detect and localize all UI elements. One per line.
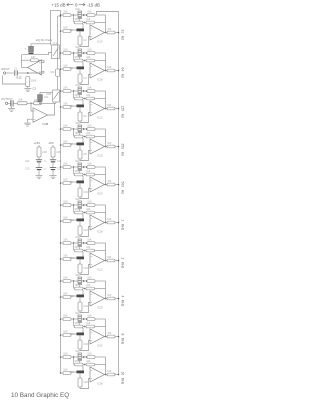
wire output row to S1B bottom [42, 102, 57, 104]
svg-text:10K: 10K [75, 160, 80, 163]
resistor R32 10K feedback [86, 287, 95, 290]
op-amp IC2B output amplifier (points right) [33, 108, 48, 123]
resistor R31 4K7 [75, 287, 84, 290]
op-amp IC1A band 1 [90, 25, 105, 40]
svg-text:24R: 24R [56, 151, 61, 154]
wire feedback column band 8 [105, 281, 107, 299]
wire rowC to capacitor band 1 [71, 29, 77, 31]
resistor R16c 100R output band 4 [107, 145, 115, 148]
capacitor C19 band 10 (dark bar) [77, 371, 85, 374]
capacitor C17 band 9 (dark bar) [77, 333, 85, 336]
svg-text:100: 100 [107, 332, 112, 335]
wire R to pot band 3 [71, 90, 78, 92]
capacitor C4 electrolytic [10, 100, 12, 106]
svg-text:10K: 10K [75, 236, 80, 239]
resistor RR13 ladder row C 10K [63, 258, 71, 261]
svg-text:KHz: KHz [121, 378, 125, 385]
node right bus junction band 2 [118, 70, 120, 72]
svg-text:10K: 10K [63, 238, 68, 241]
wire output node column [21, 55, 23, 68]
svg-text:C20: C20 [84, 381, 89, 384]
node bus-B junction band 1 row C [60, 30, 62, 32]
wire output resistor to right bus band 8 [115, 298, 119, 300]
resistor R36c 100R output band 9 [107, 335, 115, 338]
output terminal [5, 102, 7, 104]
op-amp IC2D band 8 [90, 291, 105, 306]
potentiometer VR9 10K slider [78, 315, 82, 323]
resistor R33 ladder 10K [63, 318, 71, 321]
svg-text:10K: 10K [63, 124, 68, 127]
node row B junction band 2 [84, 60, 85, 61]
wiper arrow pot VR4 [82, 128, 84, 130]
svg-text:C14: C14 [84, 267, 89, 270]
svg-text:EQ By Pass: EQ By Pass [36, 38, 53, 42]
svg-text:10K: 10K [87, 314, 92, 317]
capacitor C7 band 4 (dark bar) [77, 143, 85, 146]
legend left arrow [67, 4, 73, 6]
wire R to pot band 9 [71, 318, 78, 320]
node output junction band 10 [105, 374, 107, 376]
wire cap to row B junction band 6 [82, 214, 84, 219]
wire output resistor to right bus band 3 [115, 108, 119, 110]
svg-text:10K: 10K [63, 200, 68, 203]
resistor R-out 10K [18, 102, 28, 105]
node bus-B junction band 10 row C [60, 372, 62, 374]
svg-text:Hz: Hz [121, 152, 125, 156]
node wiper junction band 8 [86, 280, 88, 282]
node bus-B junction band 10 row A [60, 356, 62, 358]
capacitor C3 electrolytic output coupling [38, 95, 43, 100]
node wiper junction band 9 [86, 318, 88, 320]
svg-text:C11: C11 [70, 219, 75, 222]
capacitor C13 decoupling -rail [52, 157, 54, 160]
resistor R24 10K feedback [86, 211, 95, 214]
svg-text:100: 100 [107, 28, 112, 31]
resistor R32b gyrator vertical [78, 302, 82, 311]
svg-text:500: 500 [121, 182, 125, 188]
wire drop pot-left to row B band 2 [73, 53, 75, 61]
svg-text:10K: 10K [87, 162, 92, 165]
wire drop pot-left to row B band 8 [73, 281, 75, 289]
node output junction band 9 [105, 336, 107, 338]
capacitor C5 band 3 (dark bar) [77, 105, 85, 108]
svg-text:Hz: Hz [121, 114, 125, 118]
capacitor C11 decoupling -rail 2 [52, 162, 54, 168]
resistor R16b gyrator vertical [78, 150, 82, 159]
node row B junction band 10 [84, 364, 85, 365]
capacitor C1 band 1 (dark bar) [77, 29, 85, 32]
node row B junction band 7 [84, 250, 85, 251]
wire R to pot band 4 [71, 128, 78, 130]
resistor R28 10K feedback [86, 249, 95, 252]
wire output resistor to right bus band 2 [115, 70, 119, 72]
resistor RR3 ladder row C 10K [63, 68, 71, 71]
wire output resistor to right bus band 5 [115, 184, 119, 186]
svg-text:24K: 24K [34, 100, 39, 102]
svg-text:10K: 10K [63, 254, 68, 257]
bus B (left summing bus) [60, 10, 62, 373]
svg-text:10K: 10K [86, 170, 91, 173]
svg-text:-15V: -15V [48, 141, 54, 145]
svg-text:-15 dB: -15 dB [87, 2, 100, 7]
wire R to pot band 1 [71, 14, 78, 16]
wire row B to feedback column band 8 [95, 288, 106, 290]
node pot-left junction band 4 [73, 128, 75, 130]
svg-text:4K7: 4K7 [75, 56, 80, 59]
op-amp IC1D band 4 [90, 139, 105, 154]
svg-text:C12: C12 [25, 160, 30, 163]
svg-text:IC3A: IC3A [97, 345, 103, 348]
wire row B to feedback column band 2 [95, 60, 106, 62]
node wiper junction band 5 [86, 166, 88, 168]
wire R to pot band 5 [71, 166, 78, 168]
svg-text:10K: 10K [63, 178, 68, 181]
svg-text:C17: C17 [70, 333, 75, 336]
svg-text:1: 1 [121, 220, 125, 222]
svg-text:10K: 10K [63, 292, 68, 295]
resistor RR11 ladder row C 10K [63, 220, 71, 223]
capacitor C1 input coupling [14, 70, 16, 75]
svg-text:KHz: KHz [121, 224, 125, 231]
node output junction band 6 [105, 222, 107, 224]
wire drop pot-left to row B band 4 [73, 129, 75, 137]
wire cap bottom to gyrator resistor band 6 [79, 221, 81, 226]
wire output resistor to right bus band 9 [115, 336, 119, 338]
resistor R21 ladder 10K [63, 204, 71, 207]
node pot-left junction band 7 [73, 242, 75, 244]
potentiometer VR2 10K slider [78, 49, 82, 57]
node output junction band 4 [105, 146, 107, 148]
wire row A to feedback column band 3 [95, 90, 106, 92]
wiper arrow pot VR6 [82, 204, 84, 206]
wire feedback column band 10 [105, 357, 107, 375]
svg-text:10K: 10K [63, 86, 68, 89]
svg-text:10K: 10K [75, 84, 80, 87]
svg-text:IC3B: IC3B [97, 383, 103, 386]
svg-text:C10: C10 [25, 168, 30, 171]
svg-text:IC1C: IC1C [97, 117, 103, 120]
op-amp IC2C band 7 [90, 253, 105, 268]
wire output resistor to right bus band 7 [115, 260, 119, 262]
node right bus junction band 6 [118, 222, 120, 224]
svg-text:10K: 10K [63, 102, 68, 105]
svg-text:C13: C13 [57, 160, 62, 163]
svg-text:4K7: 4K7 [75, 322, 80, 325]
svg-text:IC2D: IC2D [97, 307, 103, 310]
node bus-B junction band 5 row A [60, 166, 62, 168]
wire row A to feedback column band 8 [95, 280, 106, 282]
svg-text:10K: 10K [63, 48, 68, 51]
resistor R34 10K wiper-to-output [87, 318, 95, 321]
wire pot bottom stub band 8 [79, 285, 81, 288]
wire -15V to R-psu2 [52, 145, 54, 147]
wire rowC to capacitor band 4 [71, 143, 77, 145]
resistor R40b gyrator vertical [78, 378, 82, 387]
svg-text:IC1A: IC1A [97, 41, 103, 44]
wire gyrator elbow band 9 [80, 341, 90, 351]
wire row A to feedback column band 5 [95, 166, 106, 168]
wire fb resistor left [22, 59, 31, 61]
node wiper junction band 2 [86, 52, 88, 54]
node output junction band 8 [105, 298, 107, 300]
resistor R20c 100R output band 5 [107, 183, 115, 186]
svg-text:S1A: S1A [52, 41, 57, 45]
resistor R7 4K7 [75, 59, 84, 62]
ground output amp + input [24, 122, 31, 124]
node row B junction band 8 [84, 288, 85, 289]
svg-text:16: 16 [121, 372, 125, 376]
svg-text:100: 100 [107, 294, 112, 297]
legend right arrow [79, 4, 85, 6]
potentiometer VR3 10K slider [78, 87, 82, 95]
resistor R24c 100R output band 6 [107, 221, 115, 224]
wire rowC to capacitor band 9 [71, 333, 77, 335]
wire row A to feedback column band 2 [95, 52, 106, 54]
resistor RR19 ladder row C 10K [63, 372, 71, 375]
svg-text:100: 100 [107, 66, 112, 69]
wire feedback column band 5 [105, 167, 107, 185]
wire gyrator elbow band 1 [80, 37, 90, 47]
wiper arrow pot VR5 [82, 166, 84, 168]
wire rowC to capacitor band 2 [71, 67, 77, 69]
wire drop pot-left to row B band 3 [73, 91, 75, 99]
svg-text:C15: C15 [70, 295, 75, 298]
wire cap bottom to gyrator resistor band 7 [79, 259, 81, 264]
wire cap to row B junction band 3 [82, 100, 84, 105]
resistor R20b gyrator vertical [78, 188, 82, 197]
svg-text:C19: C19 [70, 371, 75, 374]
wire R to pot band 6 [71, 204, 78, 206]
resistor R19 4K7 [75, 173, 84, 176]
op-amp IC3B band 10 [90, 367, 105, 382]
svg-text:10K: 10K [86, 208, 91, 211]
wire cap to row B junction band 7 [82, 252, 84, 257]
wire output amp feedback [48, 103, 55, 115]
node row B junction band 6 [84, 212, 85, 213]
resistor R38 10K wiper-to-output [87, 356, 95, 359]
svg-text:10K: 10K [86, 94, 91, 97]
resistor R24b gyrator vertical [78, 226, 82, 235]
wire cap bottom to gyrator resistor band 9 [79, 335, 81, 340]
ground -15V decoupling [52, 170, 54, 176]
wire drop pot-left to row B band 10 [73, 357, 75, 365]
resistor RR1 ladder row C 10K [63, 30, 71, 33]
svg-text:KHz: KHz [121, 262, 125, 269]
svg-text:KHz: KHz [121, 338, 125, 345]
wire gyrator elbow band 8 [80, 303, 90, 313]
node bus-B junction band 7 row C [60, 258, 62, 260]
wire row B to feedback column band 5 [95, 174, 106, 176]
resistor RR5 ladder row C 10K [63, 106, 71, 109]
svg-text:250: 250 [121, 144, 125, 150]
wire cap bottom to gyrator resistor band 4 [79, 145, 81, 150]
wire row B to feedback column band 9 [95, 326, 106, 328]
resistor R14 10K wiper-to-output [87, 128, 95, 131]
wire feedback column band 7 [105, 243, 107, 261]
node wiper junction band 4 [86, 128, 88, 130]
wire row A to feedback column band 7 [95, 242, 106, 244]
svg-text:8: 8 [121, 334, 125, 336]
resistor R30 10K wiper-to-output [87, 280, 95, 283]
svg-text:24R: 24R [42, 151, 47, 154]
node right bus junction band 9 [118, 336, 120, 338]
node output junction band 7 [105, 260, 107, 262]
svg-text:10K: 10K [63, 276, 68, 279]
node row B junction band 9 [84, 326, 85, 327]
node wiper junction band 6 [86, 204, 88, 206]
resistor R1 ladder 10K [63, 14, 71, 17]
wire output resistor to right bus band 1 [115, 32, 119, 34]
potentiometer VR4 10K slider [78, 125, 82, 133]
svg-text:4K7: 4K7 [75, 284, 80, 287]
wire output terminal to C4 [8, 102, 10, 104]
svg-text:10K: 10K [75, 8, 80, 11]
node output row junction [30, 103, 32, 105]
node bus-B junction band 9 row A [60, 318, 62, 320]
resistor R23 4K7 [75, 211, 84, 214]
node pot-left junction band 2 [73, 52, 75, 54]
wire cap bottom to gyrator resistor band 2 [79, 69, 81, 74]
wire drop pot-left to row B band 9 [73, 319, 75, 327]
wire pot bottom stub band 1 [79, 19, 81, 22]
resistor R-fb2 output amp feedback [34, 102, 42, 105]
node pot-left junction band 1 [73, 14, 75, 16]
svg-text:100: 100 [107, 142, 112, 145]
wire C10 row to switch left terminal [22, 53, 52, 55]
potentiometer VR1 10K slider [78, 11, 82, 19]
wire pot bottom stub band 2 [79, 57, 81, 60]
resistor RR9 ladder row C 10K [63, 182, 71, 185]
wiper arrow pot VR3 [82, 90, 84, 92]
wire cap bottom to gyrator resistor band 8 [79, 297, 81, 302]
node wiper junction band 10 [86, 356, 88, 358]
op-amp IC1C band 3 [90, 101, 105, 116]
wire rowC to capacitor band 3 [71, 105, 77, 107]
resistor R13 ladder 10K [63, 128, 71, 131]
ground input bias [27, 87, 29, 89]
svg-text:4K7: 4K7 [75, 246, 80, 249]
wire cap bottom to gyrator resistor band 1 [79, 31, 81, 36]
wire pot bottom stub band 3 [79, 95, 81, 98]
wiper arrow pot VR10 [82, 356, 84, 358]
resistor RR7 ladder row C 10K [63, 144, 71, 147]
svg-text:Hz: Hz [121, 36, 125, 40]
node wiper junction band 1 [86, 14, 88, 16]
node pot-left junction band 6 [73, 204, 75, 206]
svg-text:10K: 10K [87, 276, 92, 279]
svg-text:10K: 10K [63, 26, 68, 29]
wire S1B bottom to output row [55, 102, 57, 103]
wire band1 to right bus top [97, 12, 119, 16]
node bus-B junction band 7 row A [60, 242, 62, 244]
potentiometer VR10 10K slider [78, 353, 82, 361]
node right bus junction band 10 [118, 374, 120, 376]
svg-text:100: 100 [107, 180, 112, 183]
svg-text:10K: 10K [86, 246, 91, 249]
svg-text:4K7: 4K7 [75, 94, 80, 97]
wire row B to feedback column band 6 [95, 212, 106, 214]
capacitor C3 band 2 (dark bar) [77, 67, 85, 70]
resistor R39 4K7 [75, 363, 84, 366]
svg-text:10K: 10K [63, 10, 68, 13]
resistor R6 10K wiper-to-output [87, 52, 95, 55]
svg-text:IC2C: IC2C [97, 269, 103, 272]
wire rowC to capacitor band 8 [71, 295, 77, 297]
svg-text:10u: 10u [44, 96, 49, 99]
wire output resistor to right bus band 10 [115, 374, 119, 376]
resistor R12c 100R output band 3 [107, 107, 115, 110]
wire drop pot-left to row B band 6 [73, 205, 75, 213]
svg-text:100: 100 [107, 218, 112, 221]
node right bus junction band 7 [118, 260, 120, 262]
wire cap to row B junction band 1 [82, 24, 84, 29]
node bus-B junction band 5 row C [60, 182, 62, 184]
wire pot bottom stub band 4 [79, 133, 81, 136]
wire pot bottom stub band 7 [79, 247, 81, 250]
svg-text:10K: 10K [87, 200, 92, 203]
wire R to pot band 10 [71, 356, 78, 358]
wire row B to feedback column band 10 [95, 364, 106, 366]
resistor R-psu2 24R [51, 147, 55, 157]
svg-text:10K: 10K [63, 64, 68, 67]
wiper arrow pot VR2 [82, 52, 84, 54]
resistor R25 ladder 10K [63, 242, 71, 245]
wire feedback column band 3 [105, 91, 107, 109]
op-amp IC1C buffer (points left) [28, 60, 42, 75]
wire gyrator elbow band 7 [80, 265, 90, 275]
resistor R29 ladder 10K [63, 280, 71, 283]
node bus-B junction band 1 row A [60, 14, 62, 16]
svg-text:10K: 10K [63, 330, 68, 333]
node right bus junction band 8 [118, 298, 120, 300]
svg-text:10K: 10K [75, 198, 80, 201]
svg-text:4K7: 4K7 [75, 170, 80, 173]
svg-text:IC1C: IC1C [16, 76, 22, 80]
svg-text:Hz: Hz [121, 74, 125, 78]
svg-text:10K: 10K [63, 314, 68, 317]
svg-text:31: 31 [121, 30, 125, 34]
wire feedback column band 9 [105, 319, 107, 337]
node output junction band 1 [105, 32, 107, 34]
wire + input to ground [28, 119, 34, 123]
svg-text:10K: 10K [63, 352, 68, 355]
capacitor C13 band 7 (dark bar) [77, 257, 85, 260]
wire gyrator elbow band 10 [80, 379, 90, 389]
ground +15V decoupling [38, 170, 40, 176]
wire drop pot-left to row B band 7 [73, 243, 75, 251]
wire top-left from S1A to bus B [51, 10, 61, 45]
wire R to pot band 8 [71, 280, 78, 282]
wire drop pot-left to row B band 1 [73, 15, 75, 23]
svg-text:10K: 10K [87, 124, 92, 127]
resistor R-busA series 10K vertical [56, 69, 60, 77]
node pot-left junction band 10 [73, 356, 75, 358]
resistor R12 10K feedback [86, 97, 95, 100]
wire row A to feedback column band 1 [95, 14, 106, 16]
wiper arrow pot VR7 [82, 242, 84, 244]
svg-text:IC2B: IC2B [97, 231, 103, 234]
capacitor C10 decoupling +rail 2 [38, 162, 40, 168]
svg-text:+15V: +15V [34, 141, 41, 145]
wire row A to feedback column band 6 [95, 204, 106, 206]
svg-text:C18: C18 [84, 343, 89, 346]
resistor R40 10K feedback [86, 363, 95, 366]
wire cap to row B junction band 9 [82, 328, 84, 333]
resistor R18 10K wiper-to-output [87, 166, 95, 169]
svg-text:4K7: 4K7 [75, 208, 80, 211]
resistor R-psu1 24R [37, 147, 41, 157]
node bus-B junction band 3 row A [60, 90, 62, 92]
